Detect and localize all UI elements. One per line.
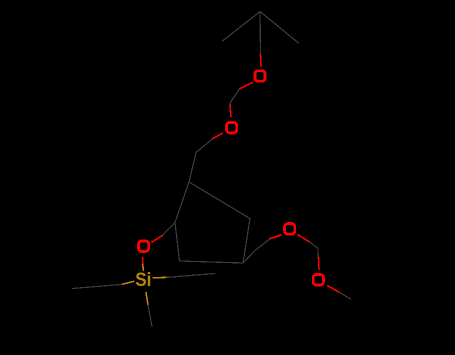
wire Si-CH3 left olive part [122, 281, 134, 284]
wire O1-CH2 red half [240, 83, 253, 89]
ring edge R2-R4 [243, 219, 250, 264]
svg-text:Si: Si [135, 270, 151, 291]
node O3 [139, 241, 149, 252]
node O4 [285, 224, 295, 235]
ring edge R5-R6 [175, 223, 180, 262]
wire O2-CH2 red half [213, 134, 222, 139]
ring edge R6-R1 [175, 182, 189, 223]
wire O5-CH3 gray half [339, 292, 350, 299]
wire C-C methyl b of isopropyl [260, 12, 299, 44]
wire CH2-O2 gray part [229, 102, 232, 106]
wire O3-Si olive part [143, 265, 144, 271]
wire CH2-O2 red part [230, 105, 231, 117]
wire CH2-O4 gray half [255, 239, 271, 251]
wire CH2-O4 red half [271, 235, 282, 239]
wire O3-Si red part [142, 258, 145, 265]
wire R6-O3 red half [152, 236, 162, 242]
wire O4-CH2 red half [298, 235, 310, 242]
node O1 [255, 71, 265, 82]
wire Si-CH3 left gray part [73, 284, 122, 288]
wire CH2-O5 red part [318, 258, 321, 270]
wire Si-CH3 right gray part [167, 274, 215, 278]
wire C-O1 upper gray half [259, 12, 262, 55]
wire O5-CH3 red half [328, 286, 340, 292]
wire Si-CH3 down olive part [146, 293, 148, 306]
wire Si-CH3 right olive part [153, 276, 166, 278]
wire Si-CH3 down gray part [148, 305, 152, 327]
node O2 [227, 122, 237, 133]
wire C-C methyl a of isopropyl [223, 12, 261, 42]
wire CH2-ring [189, 153, 196, 183]
wire CH2-O5 gray part [317, 249, 319, 258]
ring edge R1-R2 [189, 182, 250, 219]
wire ring-CH2 right [243, 251, 255, 264]
wire O4-CH2 gray half [310, 242, 318, 249]
wire O2-CH2 gray half [196, 139, 213, 153]
wire C-O1 lower red half [259, 54, 262, 66]
wire O1-CH2 gray half [231, 89, 241, 103]
node O5 [313, 275, 323, 286]
wire R6-O3 gray half [162, 223, 175, 236]
ring edge R4-R5 [180, 261, 244, 263]
